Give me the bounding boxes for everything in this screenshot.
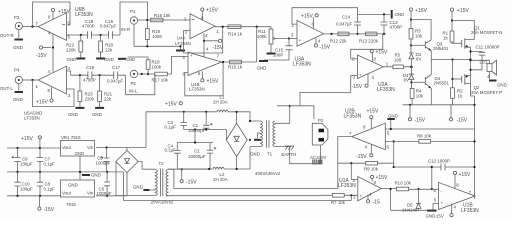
R7 wire [321,194,358,196]
svg-text:1N4148: 1N4148 [402,207,418,212]
GND rail drop to input line [122,172,124,201]
+15V terminal mid [165,102,182,108]
EARTH symbol [285,146,294,150]
resistor R21 [99,75,101,91]
svg-text:-15V: -15V [186,180,197,186]
svg-text:-15V: -15V [457,118,468,124]
svg-text:+: + [441,201,444,206]
svg-text:4700P: 4700P [82,24,95,29]
svg-text:4700P: 4700P [390,25,403,30]
svg-text:GND: GND [126,57,136,62]
-15V U2A [367,74,369,84]
svg-text:10k: 10k [416,93,424,98]
VR1 Vin rail [96,147,146,149]
svg-text:+15V: +15V [376,175,388,181]
svg-text:T2: T2 [159,161,165,166]
output wire U1A [381,189,396,211]
R9 wire [338,163,475,167]
+15V U2B [370,119,372,129]
-15V U1A [367,195,369,200]
resistor R12 [338,32,349,36]
resistor R4 [410,88,414,98]
filter chain L [67,71,126,75]
svg-text:8V: 8V [416,56,421,61]
wire +15 to Q3 collector [411,20,431,41]
feedback loop U4B [185,62,223,96]
svg-text:22k: 22k [105,48,113,53]
svg-text:0.1µF: 0.1µF [165,125,177,130]
svg-text:T1: T1 [267,152,273,157]
svg-text:C2: C2 [194,149,200,154]
svg-text:C11 10000P: C11 10000P [476,45,500,50]
-15V U2B [370,144,372,153]
IN-R routing box [120,2,148,35]
capacitor C1 [205,112,207,130]
svg-text:-15V: -15V [356,154,367,160]
svg-text:1k: 1k [458,94,463,99]
T2 transformer [138,162,155,170]
GND bar top [391,10,393,19]
Q3 transistor [411,44,425,46]
op-amp U4B [188,52,222,75]
R8 wire [392,140,474,142]
zener D3 [409,52,414,54]
svg-text:-15: -15 [373,200,380,206]
svg-text:+15V: +15V [36,100,48,106]
svg-text:1000µF: 1000µF [97,191,112,196]
op-amp U5A [38,66,67,94]
resistor R13 [366,32,378,36]
svg-text:0.1µF: 0.1µF [165,147,177,152]
resistor R3 [409,29,413,40]
capacitor C4 [176,143,178,170]
wiper arrow [273,38,289,40]
svg-text:+15V: +15V [367,109,379,115]
svg-text:GND: GND [497,83,507,88]
zener D4 [409,73,415,75]
-15 rail [7,195,61,197]
svg-text:100k: 100k [257,34,267,39]
capacitor C2 [209,143,211,170]
+15V Q1 [450,8,453,11]
svg-text:1000µF: 1000µF [96,161,111,166]
connector P1 [130,17,137,24]
glyph blob 1 [313,160,317,164]
op-amp U2B [352,123,386,149]
svg-text:+15V: +15V [58,9,70,15]
svg-text:IN-R: IN-R [121,27,130,32]
connector P3 [15,22,22,29]
-15V U4B [203,41,205,57]
svg-text:GND: GND [68,112,78,117]
pin5 ground [385,120,391,130]
svg-text:+: + [359,73,362,78]
svg-text:R13 220k: R13 220k [359,39,379,44]
svg-text:LF353N: LF353N [461,208,479,214]
connector P2 [130,70,137,77]
svg-text:OUT-L: OUT-L [0,86,13,91]
pin4 wire to -15V [52,34,54,73]
resistor R8 [419,140,431,144]
output riser [338,137,352,189]
capacitor C5 [106,148,108,172]
svg-text:10000µF: 10000µF [188,128,206,133]
resistor R17 [155,72,168,76]
svg-text:+15V: +15V [207,79,219,85]
capacitor C11 [471,52,483,70]
svg-text:+15V: +15V [301,14,313,20]
T1 transformer [261,120,275,147]
svg-text:22k: 22k [104,97,112,102]
svg-text:LF353N: LF353N [344,114,362,120]
-15V U3A [315,38,317,44]
svg-text:7915: 7915 [66,202,76,207]
resistor R1 [450,31,454,42]
svg-text:OUT-R: OUT-R [0,33,14,38]
svg-text:R9 10k: R9 10k [364,167,379,172]
svg-text:0.047µF: 0.047µF [107,79,124,84]
svg-text:LF353N: LF353N [189,87,205,92]
svg-text:-15V: -15V [415,118,426,124]
svg-text:LF353N: LF353N [175,41,191,46]
svg-text:P2: P2 [131,81,137,86]
wire P2 to R17 [138,73,155,75]
VR2 Vin wire [96,195,127,197]
connector P4 [15,76,22,83]
svg-text:VR1 7815: VR1 7815 [61,135,81,140]
negative rail [403,104,475,106]
+15V U4B [201,71,203,78]
resistor R10 [396,187,408,191]
svg-text:10000µF: 10000µF [188,154,206,159]
svg-text:C12 1000P: C12 1000P [428,159,450,164]
+15V U3A [313,17,315,28]
svg-text:C14: C14 [342,15,351,20]
pin6 node [385,141,393,167]
svg-text:LF353N: LF353N [377,87,395,93]
op-amp U2A [357,55,383,79]
svg-text:P1: P1 [130,9,136,14]
inductor L1 [217,110,228,112]
-15V terminal b [450,105,452,118]
resistor R16 [147,69,149,74]
capacitor C17 [114,71,118,79]
-15V terminal a [409,105,411,118]
pot bottom ground [270,44,272,53]
svg-text:20A MOSFET-P: 20A MOSFET-P [471,90,502,95]
svg-text:R8 10k: R8 10k [417,134,432,139]
svg-text:+15V: +15V [415,8,427,14]
capacitor C16 [109,31,113,39]
svg-text:LF353N: LF353N [338,183,356,189]
resistor R14 [228,25,241,29]
svg-text:100µF: 100µF [20,186,33,191]
capacitor C19 [88,71,92,79]
ground for R16 [118,58,126,60]
feedback loop U4A [184,27,223,53]
svg-text:0.1µF: 0.1µF [44,162,56,167]
svg-text:+15V: +15V [376,50,388,56]
ground R22 [76,58,85,60]
AC line to plug [277,106,314,119]
resistor R15 [230,60,242,64]
ground R20 [96,58,105,60]
svg-text:C17: C17 [112,65,121,70]
svg-text:0.1µF: 0.1µF [44,186,56,191]
svg-text:P2: P2 [318,118,324,123]
svg-text:R12 22k: R12 22k [330,39,347,44]
ground C15 [259,60,268,62]
wire ground return to U1A pin3 [123,200,351,202]
wire P4 to U5A [22,79,38,81]
svg-text:10k: 10k [415,34,423,39]
svg-text:8V: 8V [404,78,409,83]
svg-text:R10 10k: R10 10k [395,181,412,186]
pin2 loop to node B [351,34,383,59]
svg-text:+: + [360,194,363,199]
capacitor C15 [264,39,289,61]
diode D5 [391,189,427,210]
svg-text:R16 10k: R16 10k [154,13,171,18]
svg-text:GND: GND [250,152,260,157]
output + R15 [222,27,257,62]
svg-text:GND: GND [75,151,85,156]
regulator VR2 7915 [61,180,95,197]
-15V terminal [38,196,40,207]
svg-text:LF353N: LF353N [75,12,93,18]
svg-text:GND: GND [13,97,23,102]
line from T2 elbow to U2B riser [168,169,338,188]
ground P4 [18,84,20,91]
-15V terminal [43,47,51,49]
svg-text:+15V: +15V [206,8,218,14]
svg-text:1k: 1k [443,36,448,41]
capacitor C8 [39,172,41,196]
svg-text:GND: GND [92,112,102,117]
output + R5 [383,66,411,68]
+15V U4A [201,11,203,20]
svg-text:R17 10k: R17 10k [152,78,169,83]
svg-text:220k: 220k [85,97,95,102]
capacitor C7 [39,148,41,172]
op-amp U6B [38,13,67,41]
svg-text:+: + [190,53,193,58]
svg-text:R14 1k: R14 1k [228,32,243,37]
lower assembly C4/C2 [177,142,213,144]
capacitor C6 [106,172,108,196]
T2 primary wires [166,169,209,196]
svg-text:-15V: -15V [36,53,47,59]
capacitor C14 [357,14,359,34]
resistor R19 [146,20,148,29]
svg-text:Vin: Vin [87,191,94,196]
svg-text:0.047µF: 0.047µF [336,22,353,27]
svg-text:P4: P4 [14,68,20,73]
svg-text:IN-L: IN-L [129,89,138,94]
svg-text:+15V: +15V [457,8,469,14]
node [31,26,33,28]
svg-text:2H 20A: 2H 20A [213,177,228,182]
svg-text:-15V: -15V [213,45,224,51]
svg-text:100K: 100K [152,34,162,39]
wires P1 node [134,20,190,46]
T2 centre tap ground [150,189,156,191]
ground P3 [18,30,20,38]
svg-text:GND: GND [91,173,101,178]
svg-text:+15V: +15V [459,172,471,178]
bridge rectifier small [116,150,138,172]
svg-text:2N5401: 2N5401 [433,46,449,51]
GND rail [7,156,123,180]
capacitor C3 [183,112,185,130]
+15V R3 [409,8,412,11]
capacitor C12 [441,164,445,171]
svg-text:LS1: LS1 [480,60,488,65]
svg-text:4700P: 4700P [83,78,96,83]
pin5 ground U1B [433,203,439,209]
capacitor C9 [17,148,19,172]
MOSFET Q2 [453,78,462,80]
feedback wire U6B [33,2,71,27]
wire T2 secondary to R7 [166,194,321,196]
P2 AC plug [312,123,328,145]
resistor R2 [452,60,454,88]
bridge rectifier big [226,123,247,156]
pot R11 [269,29,273,44]
svg-text:P3: P3 [14,15,20,20]
resistor R23 [79,75,81,91]
ground line under P1 [134,46,181,49]
svg-text:-15V: -15V [352,84,363,90]
+15V U2A [371,53,373,62]
T1 left winding wires [250,121,261,147]
T1 right winding wires [275,106,321,164]
svg-text:GND: GND [68,183,78,188]
gnd wire top [358,13,390,15]
wire P3 to U6B [22,26,38,28]
pin2 riser [351,163,358,179]
svg-text:20A MOSFET-N: 20A MOSFET-N [471,30,502,35]
top raw rail [146,112,250,148]
output rail [324,33,386,35]
+15 rail [7,147,61,149]
resistor R20 [100,35,102,41]
svg-text:Vin: Vin [87,145,94,150]
resistor R22 [80,35,82,41]
resistor R7 [332,194,344,198]
resistor R18 [151,18,164,22]
pin2 wire to gnd rail [292,8,358,24]
svg-text:400VA36Vx2: 400VA36Vx2 [255,171,281,176]
pin6 wire [409,188,439,190]
op-amp U1B [439,182,476,209]
svg-text:GND: GND [13,45,23,50]
capacitor C18 [88,31,92,39]
+15V U6B [52,12,54,20]
mid rail [184,130,227,140]
pin3 route [300,76,357,106]
+15V U1A [371,178,373,181]
+15V U1B [454,175,456,189]
svg-text:U4A: U4A [177,36,186,41]
bottom raw rail + L2 [177,147,250,169]
svg-text:LF353N: LF353N [293,62,311,68]
svg-text:100µF: 100µF [20,162,33,167]
T1 centre tap ground [257,133,260,139]
svg-text:GND: GND [257,66,267,71]
riser to input line [350,195,352,200]
capacitor C13 [383,14,385,34]
svg-text:100: 100 [394,58,402,63]
svg-text:GND: GND [133,185,143,190]
feedback wire U5A [33,80,75,107]
riser R10 to C12 line [431,167,433,189]
svg-text:Vout: Vout [62,191,72,196]
svg-text:-15V: -15V [320,45,331,51]
op-amp U4A [190,14,215,39]
svg-text:LF353N: LF353N [24,116,40,121]
svg-text:GND: GND [388,114,398,119]
capacitor C10 [17,172,19,196]
wire R17 to U4B pin5 [167,56,188,74]
resistor R9 [366,161,378,165]
svg-text:+15V: +15V [165,102,177,108]
+15V U5A [51,87,53,99]
svg-text:-15V: -15V [44,207,55,213]
filter chain R: wire pin5 [67,34,121,36]
op-amp U1A [358,177,382,201]
svg-text:220k: 220k [66,48,76,53]
svg-text:+: + [299,38,302,43]
svg-text:GND: GND [104,57,114,62]
svg-text:GND: GND [395,12,405,17]
-15V U4A [204,33,219,41]
svg-text:R15 1k: R15 1k [228,65,243,70]
Q4 transistor [411,81,425,83]
gate drive line [431,59,470,61]
svg-text:+15V: +15V [21,136,33,142]
svg-text:2H 20A: 2H 20A [213,99,228,104]
svg-text:2N5551: 2N5551 [434,81,450,86]
svg-text:Vout: Vout [62,145,72,150]
IN-L routing box [126,74,155,95]
MOSFET Q1 [452,21,474,40]
svg-text:AC220V: AC220V [310,155,326,160]
output wire + R14 [215,27,271,29]
svg-text:0.047µF: 0.047µF [100,24,117,29]
node to pin3 [288,37,290,39]
svg-text:100k: 100k [152,64,162,69]
speaker LS1 [471,60,490,63]
svg-text:-15V: -15V [435,214,444,219]
op-amp U3A [297,20,324,46]
-15V U1B pin4 [451,204,453,214]
svg-text:C19: C19 [86,65,95,70]
svg-text:200P: 200P [273,53,283,58]
output riser U1B [473,166,475,168]
svg-text:GND: GND [67,57,77,62]
svg-text:EARTH: EARTH [282,152,297,157]
